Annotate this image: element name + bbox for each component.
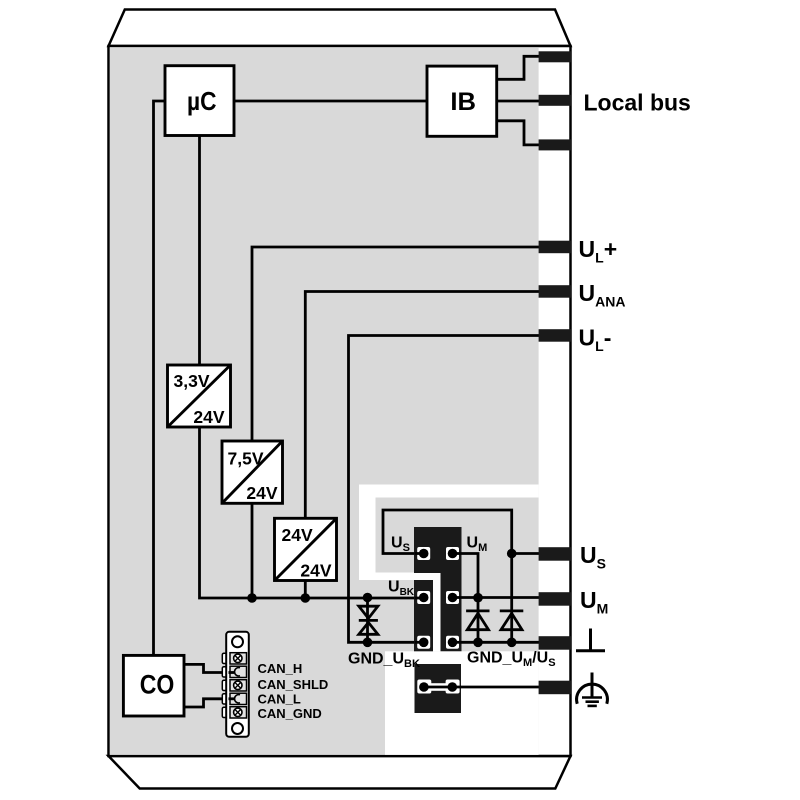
- svg-text:3,3V: 3,3V: [174, 371, 210, 391]
- terminal bar UM: [539, 592, 572, 606]
- white zone: vertical channel between connector bars: [433, 573, 441, 652]
- svg-text:CAN_GND: CAN_GND: [258, 706, 322, 721]
- wire: diode D1 branch vertical: [477, 598, 480, 642]
- CAN terminal row slot B: [230, 666, 247, 677]
- terminal cutout U_BK: [417, 591, 430, 604]
- block CO: [123, 655, 184, 716]
- DC/DC converter 3,3V/24V: [168, 365, 231, 427]
- wire: US node to US terminal bar: [512, 552, 555, 555]
- terminal bar UANA: [539, 285, 572, 298]
- terminal bar US: [539, 547, 572, 561]
- svg-text:CAN_H: CAN_H: [258, 661, 303, 676]
- wire: uC right to IB to Local bus bar 2: [234, 100, 555, 103]
- wire stub into CAN_L slot: [229, 697, 235, 700]
- svg-text:7,5V: 7,5V: [228, 449, 264, 469]
- gray circuit area: [110, 47, 539, 755]
- CAN terminal row screw E: [230, 707, 247, 718]
- junction node dots: [247, 593, 257, 603]
- terminal bar UL+: [539, 241, 572, 254]
- wire: earth bridge: [424, 686, 452, 689]
- wire: diode D2 branch vertical: [510, 554, 513, 643]
- terminal cutout US internal: [417, 547, 430, 560]
- CAN terminal row slot D: [230, 693, 247, 704]
- svg-text:Local bus: Local bus: [584, 90, 691, 116]
- block IB: [427, 66, 497, 136]
- wire: UL- terminal down to GND_U_BK line: [349, 336, 556, 643]
- wire: uC left down to CO: [154, 101, 166, 655]
- terminal cutout GND_U_BK: [417, 636, 430, 649]
- terminal bar local bus 3: [539, 139, 572, 150]
- diode D1: [466, 611, 489, 630]
- connector block earth: [415, 664, 462, 713]
- svg-text:24V: 24V: [193, 407, 224, 427]
- block uC: [165, 66, 234, 136]
- svg-text:UL-: UL-: [579, 324, 612, 354]
- white zone: bottom right region: [385, 651, 539, 755]
- ground symbol: [576, 629, 605, 651]
- svg-text:µC: µC: [187, 86, 217, 116]
- DC/DC converter 24V/24V: [275, 518, 337, 580]
- terminal bar earth: [539, 681, 572, 695]
- wire: CO to CAN_H terminal: [184, 664, 233, 672]
- svg-text:CAN_L: CAN_L: [258, 692, 301, 707]
- wire: UL+ terminal to 7,5V converter to bus: [252, 247, 555, 598]
- TVS suppressor diode: [359, 606, 378, 634]
- module housing outline: top face: [109, 10, 571, 47]
- terminal cutouts earth block with bridge: [417, 680, 431, 694]
- svg-text:24V: 24V: [300, 561, 331, 581]
- connector bar T (US/UM block): [414, 527, 462, 651]
- wire: earth to earth terminal bar: [452, 686, 555, 689]
- diode D2: [500, 611, 524, 630]
- svg-text:GND_UM/US: GND_UM/US: [467, 650, 556, 670]
- svg-text:IB: IB: [450, 88, 476, 116]
- wire: UM line to UM terminal bar: [453, 596, 556, 599]
- wire: U_M internal terminal jog down to UM line: [453, 554, 479, 599]
- terminal cutout UM line: [446, 591, 459, 604]
- wire: GND line to ground terminal bar: [453, 641, 556, 644]
- earth symbol: [577, 673, 608, 706]
- white zone: left band of isolation area: [359, 485, 376, 581]
- terminal cutout GND line: [446, 636, 459, 649]
- terminal bar UL-: [539, 329, 572, 342]
- terminal dots: [419, 549, 429, 559]
- wire: TVS branch vertical: [366, 598, 369, 643]
- connector bar U_BK: [414, 580, 433, 651]
- svg-text:CO: CO: [140, 669, 175, 699]
- terminal cutout UM internal: [446, 547, 459, 560]
- white zone: top band of isolation area: [359, 485, 539, 498]
- module housing outline: front face: [109, 46, 571, 756]
- svg-text:24V: 24V: [246, 483, 277, 503]
- white zone: foot band under U_BK label: [359, 573, 441, 581]
- wire: U_S loop from internal terminal to US terminal: [383, 510, 512, 554]
- terminal bar local bus 1: [539, 51, 572, 62]
- wire: uC bottom through 3,3V converter to bus: [200, 136, 424, 599]
- wire stubs into terminal cutouts: [415, 554, 462, 643]
- CAN connector: [222, 632, 249, 737]
- svg-text:CAN_SHLD: CAN_SHLD: [258, 677, 329, 692]
- wire stub into CAN_H slot: [229, 671, 235, 674]
- svg-text:24V: 24V: [282, 525, 313, 545]
- terminal bar ground: [539, 636, 572, 650]
- CAN terminal row screw A: [230, 653, 247, 664]
- module housing outline: bottom face: [109, 756, 571, 789]
- DC/DC converter 7,5V/24V: [222, 441, 283, 503]
- wire: IB to Local bus bar 3: [497, 121, 556, 145]
- wire: UANA terminal to 24V converter to bus: [305, 292, 555, 599]
- CAN terminal row screw C: [230, 680, 247, 691]
- terminal bar local bus 2: [539, 95, 572, 106]
- wire: IB to Local bus bar 1: [497, 56, 556, 79]
- wire: CO to CAN_L terminal: [184, 699, 233, 707]
